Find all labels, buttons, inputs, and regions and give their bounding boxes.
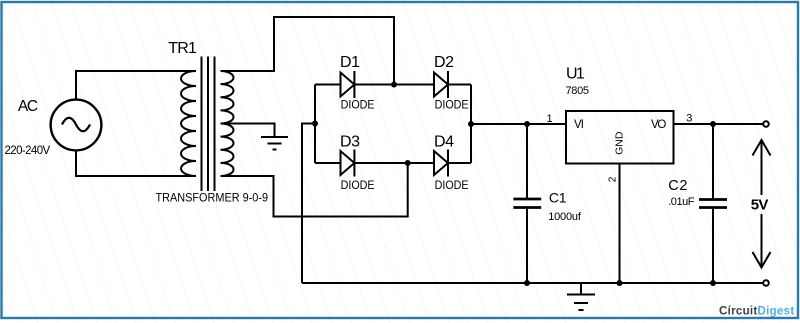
svg-text:U1: U1 [566,65,585,82]
svg-text:1000uf: 1000uf [548,211,582,223]
svg-text:3: 3 [686,113,692,125]
svg-text:TR1: TR1 [168,40,197,57]
svg-text:7805: 7805 [566,85,590,97]
svg-text:DIODE: DIODE [341,180,375,192]
svg-text:.01uF: .01uF [668,196,695,208]
svg-text:VO: VO [651,119,666,131]
svg-text:D4: D4 [434,134,454,151]
svg-text:DIODE: DIODE [435,100,469,112]
svg-text:DIODE: DIODE [435,180,469,192]
svg-text:220-240V: 220-240V [5,145,51,157]
svg-text:CírcuitDigest: CírcuitDigest [719,306,794,318]
svg-text:D2: D2 [434,54,454,71]
svg-text:DIODE: DIODE [341,100,375,112]
svg-text:5V: 5V [751,196,769,213]
svg-text:GND: GND [613,131,625,155]
svg-text:D1: D1 [340,54,360,71]
svg-text:C1: C1 [549,190,567,206]
svg-text:1: 1 [547,113,553,125]
svg-text:C2: C2 [668,178,687,194]
svg-text:D3: D3 [340,134,360,151]
svg-text:VI: VI [574,119,584,131]
svg-text:TRANSFORMER 9-0-9: TRANSFORMER 9-0-9 [156,191,269,205]
svg-text:AC: AC [18,98,38,115]
svg-text:2: 2 [608,176,619,182]
